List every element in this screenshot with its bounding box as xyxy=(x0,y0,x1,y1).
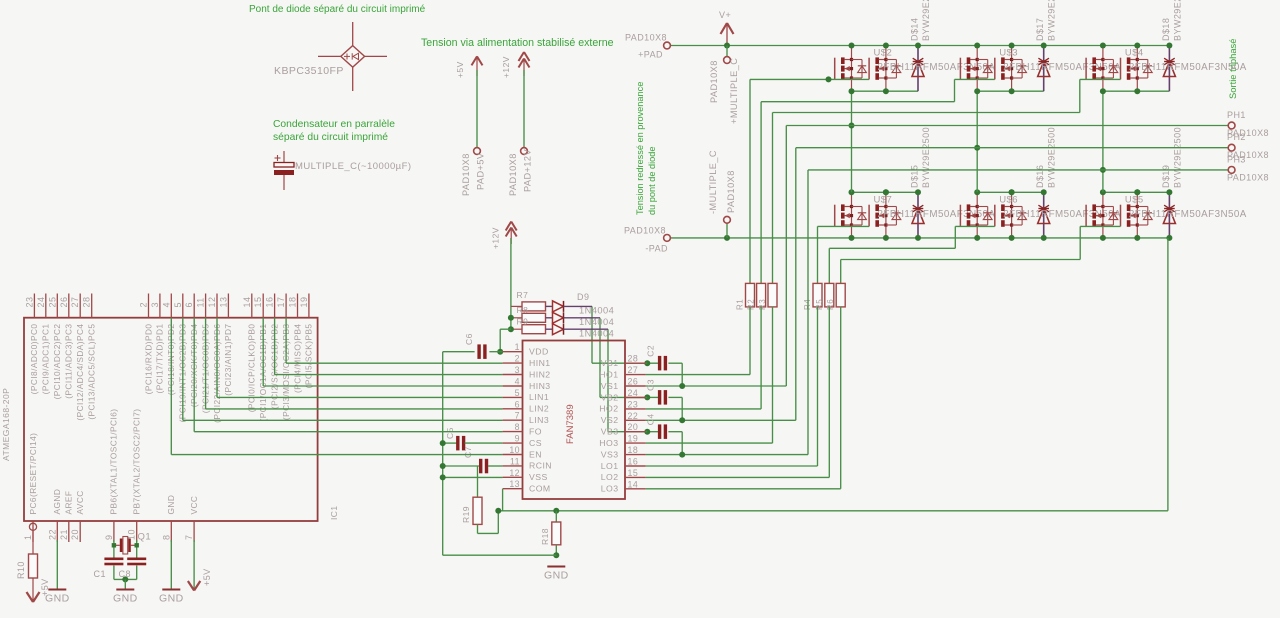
svg-text:10: 10 xyxy=(509,445,520,455)
svg-text:PB7(XTAL2/TOSC2/PCI7): PB7(XTAL2/TOSC2/PCI7) xyxy=(132,409,142,515)
svg-text:PAD10X8: PAD10X8 xyxy=(461,153,471,196)
svg-text:9: 9 xyxy=(515,434,520,444)
svg-text:VCC: VCC xyxy=(189,496,199,515)
svg-text:D$16: D$16 xyxy=(1035,165,1045,188)
svg-text:BYW29E2500: BYW29E2500 xyxy=(1172,127,1182,188)
svg-text:+5V: +5V xyxy=(455,61,465,78)
svg-text:U$4: U$4 xyxy=(1125,48,1144,59)
svg-text:PH1: PH1 xyxy=(1227,110,1246,120)
svg-text:D9: D9 xyxy=(577,292,589,302)
svg-text:+MULTIPLE_C: +MULTIPLE_C xyxy=(729,58,739,124)
svg-text:U$2: U$2 xyxy=(874,48,893,59)
svg-text:CS: CS xyxy=(529,438,542,448)
svg-text:2: 2 xyxy=(515,354,520,364)
svg-text:15: 15 xyxy=(253,297,263,308)
svg-text:HIN1: HIN1 xyxy=(529,358,551,368)
svg-text:PH2: PH2 xyxy=(1227,132,1246,142)
svg-text:FAN7389: FAN7389 xyxy=(565,404,576,444)
svg-text:C3: C3 xyxy=(646,379,656,391)
svg-text:U$5: U$5 xyxy=(1125,195,1144,206)
svg-text:PAD10X8: PAD10X8 xyxy=(726,170,736,213)
svg-text:13: 13 xyxy=(509,479,520,489)
svg-text:(PCI0/ICP/CLKO)PB0: (PCI0/ICP/CLKO)PB0 xyxy=(247,324,257,413)
svg-text:+5V: +5V xyxy=(202,568,212,586)
svg-text:18: 18 xyxy=(288,297,298,308)
svg-text:C6: C6 xyxy=(464,333,474,345)
svg-text:2FBH11RFM50AF3N50A: 2FBH11RFM50AF3N50A xyxy=(1129,62,1247,73)
svg-text:7: 7 xyxy=(515,411,520,421)
svg-text:VS2: VS2 xyxy=(601,415,619,425)
svg-text:17: 17 xyxy=(276,297,286,308)
svg-text:C1: C1 xyxy=(94,569,106,579)
svg-text:+PAD: +PAD xyxy=(638,50,663,60)
svg-text:16: 16 xyxy=(628,457,639,467)
svg-text:VB2: VB2 xyxy=(601,392,619,402)
svg-text:8: 8 xyxy=(161,535,171,540)
svg-text:LO2: LO2 xyxy=(601,472,619,482)
svg-text:GND: GND xyxy=(159,592,184,604)
svg-text:C2: C2 xyxy=(646,345,656,357)
svg-text:R19: R19 xyxy=(461,506,471,523)
svg-text:MULTIPLE_C(~10000µF): MULTIPLE_C(~10000µF) xyxy=(295,161,411,172)
svg-text:GND: GND xyxy=(544,569,569,581)
svg-text:HO2: HO2 xyxy=(599,404,618,414)
svg-text:R3: R3 xyxy=(758,299,767,310)
svg-text:2FBH11RFM50AF3N50A: 2FBH11RFM50AF3N50A xyxy=(1129,209,1247,220)
svg-text:22: 22 xyxy=(47,529,57,540)
svg-text:PC6(RESET/PCI14): PC6(RESET/PCI14) xyxy=(28,433,38,515)
svg-text:PH3: PH3 xyxy=(1227,154,1246,164)
svg-text:LO3: LO3 xyxy=(601,484,619,494)
svg-text:VB1: VB1 xyxy=(601,358,619,368)
svg-text:R10: R10 xyxy=(16,561,26,579)
svg-text:20: 20 xyxy=(70,529,80,540)
svg-text:21: 21 xyxy=(59,529,69,540)
svg-text:VS1: VS1 xyxy=(601,381,619,391)
svg-text:26: 26 xyxy=(628,377,639,387)
svg-text:D$19: D$19 xyxy=(1161,165,1171,188)
svg-text:du pont de diode: du pont de diode xyxy=(647,147,657,215)
svg-text:7: 7 xyxy=(184,535,194,540)
svg-text:1: 1 xyxy=(23,535,33,540)
svg-text:(PCI9/ADC1)PC1: (PCI9/ADC1)PC1 xyxy=(41,324,51,395)
svg-text:Tension via alimentation stabi: Tension via alimentation stabilisé exter… xyxy=(421,37,614,49)
svg-text:14: 14 xyxy=(628,479,639,489)
svg-text:C7: C7 xyxy=(463,446,473,458)
svg-text:(PCI16/RXD)PD0: (PCI16/RXD)PD0 xyxy=(143,324,153,395)
svg-text:PAD+12V: PAD+12V xyxy=(523,149,533,192)
svg-text:26: 26 xyxy=(59,297,69,308)
svg-text:BYW29E2500: BYW29E2500 xyxy=(1172,0,1182,41)
svg-text:-MULTIPLE_C: -MULTIPLE_C xyxy=(708,150,718,214)
svg-text:(PCI23/AIN1)PD7: (PCI23/AIN1)PD7 xyxy=(223,324,233,396)
svg-text:FO: FO xyxy=(529,426,542,436)
svg-text:LIN2: LIN2 xyxy=(529,404,549,414)
svg-text:D$15: D$15 xyxy=(910,165,920,188)
svg-text:KBPC3510FP: KBPC3510FP xyxy=(274,65,344,77)
svg-text:2: 2 xyxy=(139,302,149,307)
svg-text:6: 6 xyxy=(515,399,520,409)
svg-text:PAD10X8: PAD10X8 xyxy=(624,226,666,236)
svg-text:BYW29E2500: BYW29E2500 xyxy=(921,127,931,188)
svg-text:D$14: D$14 xyxy=(910,18,920,41)
svg-text:RCIN: RCIN xyxy=(529,461,552,471)
svg-text:séparé du circuit imprimé: séparé du circuit imprimé xyxy=(273,132,388,143)
svg-text:PAD10X8: PAD10X8 xyxy=(709,60,719,103)
svg-text:1N4004: 1N4004 xyxy=(579,317,614,327)
svg-text:27: 27 xyxy=(70,297,80,308)
svg-text:D$17: D$17 xyxy=(1035,18,1045,41)
svg-text:R7: R7 xyxy=(517,290,529,300)
svg-text:19: 19 xyxy=(628,434,639,444)
svg-text:HIN3: HIN3 xyxy=(529,381,551,391)
svg-text:1: 1 xyxy=(515,342,520,352)
svg-text:COM: COM xyxy=(529,484,551,494)
svg-text:R6: R6 xyxy=(826,299,835,310)
svg-text:VB3: VB3 xyxy=(601,427,619,437)
svg-text:R8: R8 xyxy=(517,305,529,315)
svg-text:1N4004: 1N4004 xyxy=(579,306,614,316)
svg-text:IC1: IC1 xyxy=(329,505,339,520)
svg-text:+12V: +12V xyxy=(491,227,501,249)
svg-text:R1: R1 xyxy=(736,299,745,310)
svg-text:16: 16 xyxy=(265,297,275,308)
svg-text:25: 25 xyxy=(47,297,57,308)
svg-text:PAD10X8: PAD10X8 xyxy=(508,153,518,196)
svg-text:5: 5 xyxy=(173,302,183,307)
svg-text:U$7: U$7 xyxy=(874,195,893,206)
svg-text:13: 13 xyxy=(218,297,228,308)
svg-text:VS3: VS3 xyxy=(601,449,619,459)
svg-text:11: 11 xyxy=(510,456,520,466)
svg-text:R5: R5 xyxy=(815,299,824,310)
svg-text:(PCI5/SCK)PB5: (PCI5/SCK)PB5 xyxy=(304,324,314,389)
svg-text:4: 4 xyxy=(161,302,171,307)
svg-text:AGND: AGND xyxy=(52,489,62,515)
svg-text:HO1: HO1 xyxy=(599,369,618,379)
svg-text:9: 9 xyxy=(104,535,114,540)
svg-text:28: 28 xyxy=(628,354,639,364)
svg-text:C8: C8 xyxy=(119,569,131,579)
svg-text:(PCI4/MISO)PB4: (PCI4/MISO)PB4 xyxy=(292,324,302,393)
svg-text:VSS: VSS xyxy=(529,472,548,482)
svg-text:PB6(XTAL1/TOSC1/PCI6): PB6(XTAL1/TOSC1/PCI6) xyxy=(109,409,119,515)
svg-text:-PAD: -PAD xyxy=(645,244,668,254)
svg-text:27: 27 xyxy=(628,365,639,375)
svg-text:1N4004: 1N4004 xyxy=(579,329,614,339)
svg-text:23: 23 xyxy=(628,399,639,409)
svg-text:GND: GND xyxy=(166,495,176,515)
svg-text:V+: V+ xyxy=(719,10,731,20)
svg-text:ATMEGA168-20P: ATMEGA168-20P xyxy=(1,388,11,461)
svg-text:(PCI8/ADC0)PC0: (PCI8/ADC0)PC0 xyxy=(29,324,39,395)
svg-text:BYW29E2500: BYW29E2500 xyxy=(1047,127,1057,188)
svg-text:PAD10X8: PAD10X8 xyxy=(1227,172,1269,182)
svg-text:Tension redressé en provenance: Tension redressé en provenance xyxy=(635,82,645,215)
svg-text:19: 19 xyxy=(299,297,309,308)
svg-text:6: 6 xyxy=(184,302,194,307)
svg-text:20: 20 xyxy=(628,422,639,432)
svg-text:R18: R18 xyxy=(540,528,550,545)
svg-text:U$6: U$6 xyxy=(999,195,1018,206)
svg-text:BYW29E2500: BYW29E2500 xyxy=(1047,0,1057,41)
svg-text:5: 5 xyxy=(515,388,520,398)
svg-text:11: 11 xyxy=(196,297,206,307)
svg-text:+12V: +12V xyxy=(501,56,511,78)
svg-text:HO3: HO3 xyxy=(599,438,618,448)
svg-text:Q1: Q1 xyxy=(138,532,152,543)
svg-text:LIN3: LIN3 xyxy=(529,415,549,425)
svg-text:(PCI12/ADC4/SDA)PC4: (PCI12/ADC4/SDA)PC4 xyxy=(75,324,85,421)
svg-text:24: 24 xyxy=(36,297,46,308)
svg-text:AREF: AREF xyxy=(64,491,74,515)
svg-text:C5: C5 xyxy=(445,427,455,439)
svg-text:3: 3 xyxy=(515,365,520,375)
svg-text:PAD10X8: PAD10X8 xyxy=(625,33,667,43)
svg-text:(PCI10/ADC2)PC2: (PCI10/ADC2)PC2 xyxy=(52,324,62,400)
svg-text:18: 18 xyxy=(628,445,639,455)
svg-text:3: 3 xyxy=(150,302,160,307)
svg-text:R2: R2 xyxy=(747,299,756,310)
svg-text:VDD: VDD xyxy=(529,347,549,357)
svg-text:EN: EN xyxy=(529,449,542,459)
svg-text:15: 15 xyxy=(628,468,639,478)
svg-text:C4: C4 xyxy=(646,413,656,425)
svg-text:U$3: U$3 xyxy=(999,48,1018,59)
svg-text:D$18: D$18 xyxy=(1161,18,1171,41)
svg-text:HIN2: HIN2 xyxy=(529,369,551,379)
svg-text:LO1: LO1 xyxy=(601,461,619,471)
svg-text:LIN1: LIN1 xyxy=(529,392,549,402)
svg-text:Pont de diode séparé du circui: Pont de diode séparé du circuit imprimé xyxy=(249,4,426,15)
svg-text:BYW29E2500: BYW29E2500 xyxy=(921,0,931,41)
svg-text:GND: GND xyxy=(113,592,138,604)
svg-text:12: 12 xyxy=(509,468,520,478)
svg-text:PAD+5V: PAD+5V xyxy=(476,152,486,190)
svg-text:Condensateur en parralèle: Condensateur en parralèle xyxy=(273,119,395,130)
svg-text:14: 14 xyxy=(242,297,252,308)
svg-text:22: 22 xyxy=(628,411,639,421)
svg-text:4: 4 xyxy=(515,377,520,387)
svg-text:12: 12 xyxy=(207,297,217,308)
svg-text:GND: GND xyxy=(45,592,70,604)
svg-text:28: 28 xyxy=(82,297,92,308)
svg-text:23: 23 xyxy=(24,297,34,308)
svg-text:AVCC: AVCC xyxy=(75,490,85,514)
svg-text:R9: R9 xyxy=(517,317,529,327)
svg-text:24: 24 xyxy=(628,388,639,398)
svg-text:8: 8 xyxy=(515,422,520,432)
svg-text:(PCI17/TXD)PD1: (PCI17/TXD)PD1 xyxy=(155,324,165,394)
svg-text:(PCI13/ADC5/SCL)PC5: (PCI13/ADC5/SCL)PC5 xyxy=(87,324,97,420)
svg-text:(PCI11/ADC3)PC3: (PCI11/ADC3)PC3 xyxy=(64,324,74,399)
